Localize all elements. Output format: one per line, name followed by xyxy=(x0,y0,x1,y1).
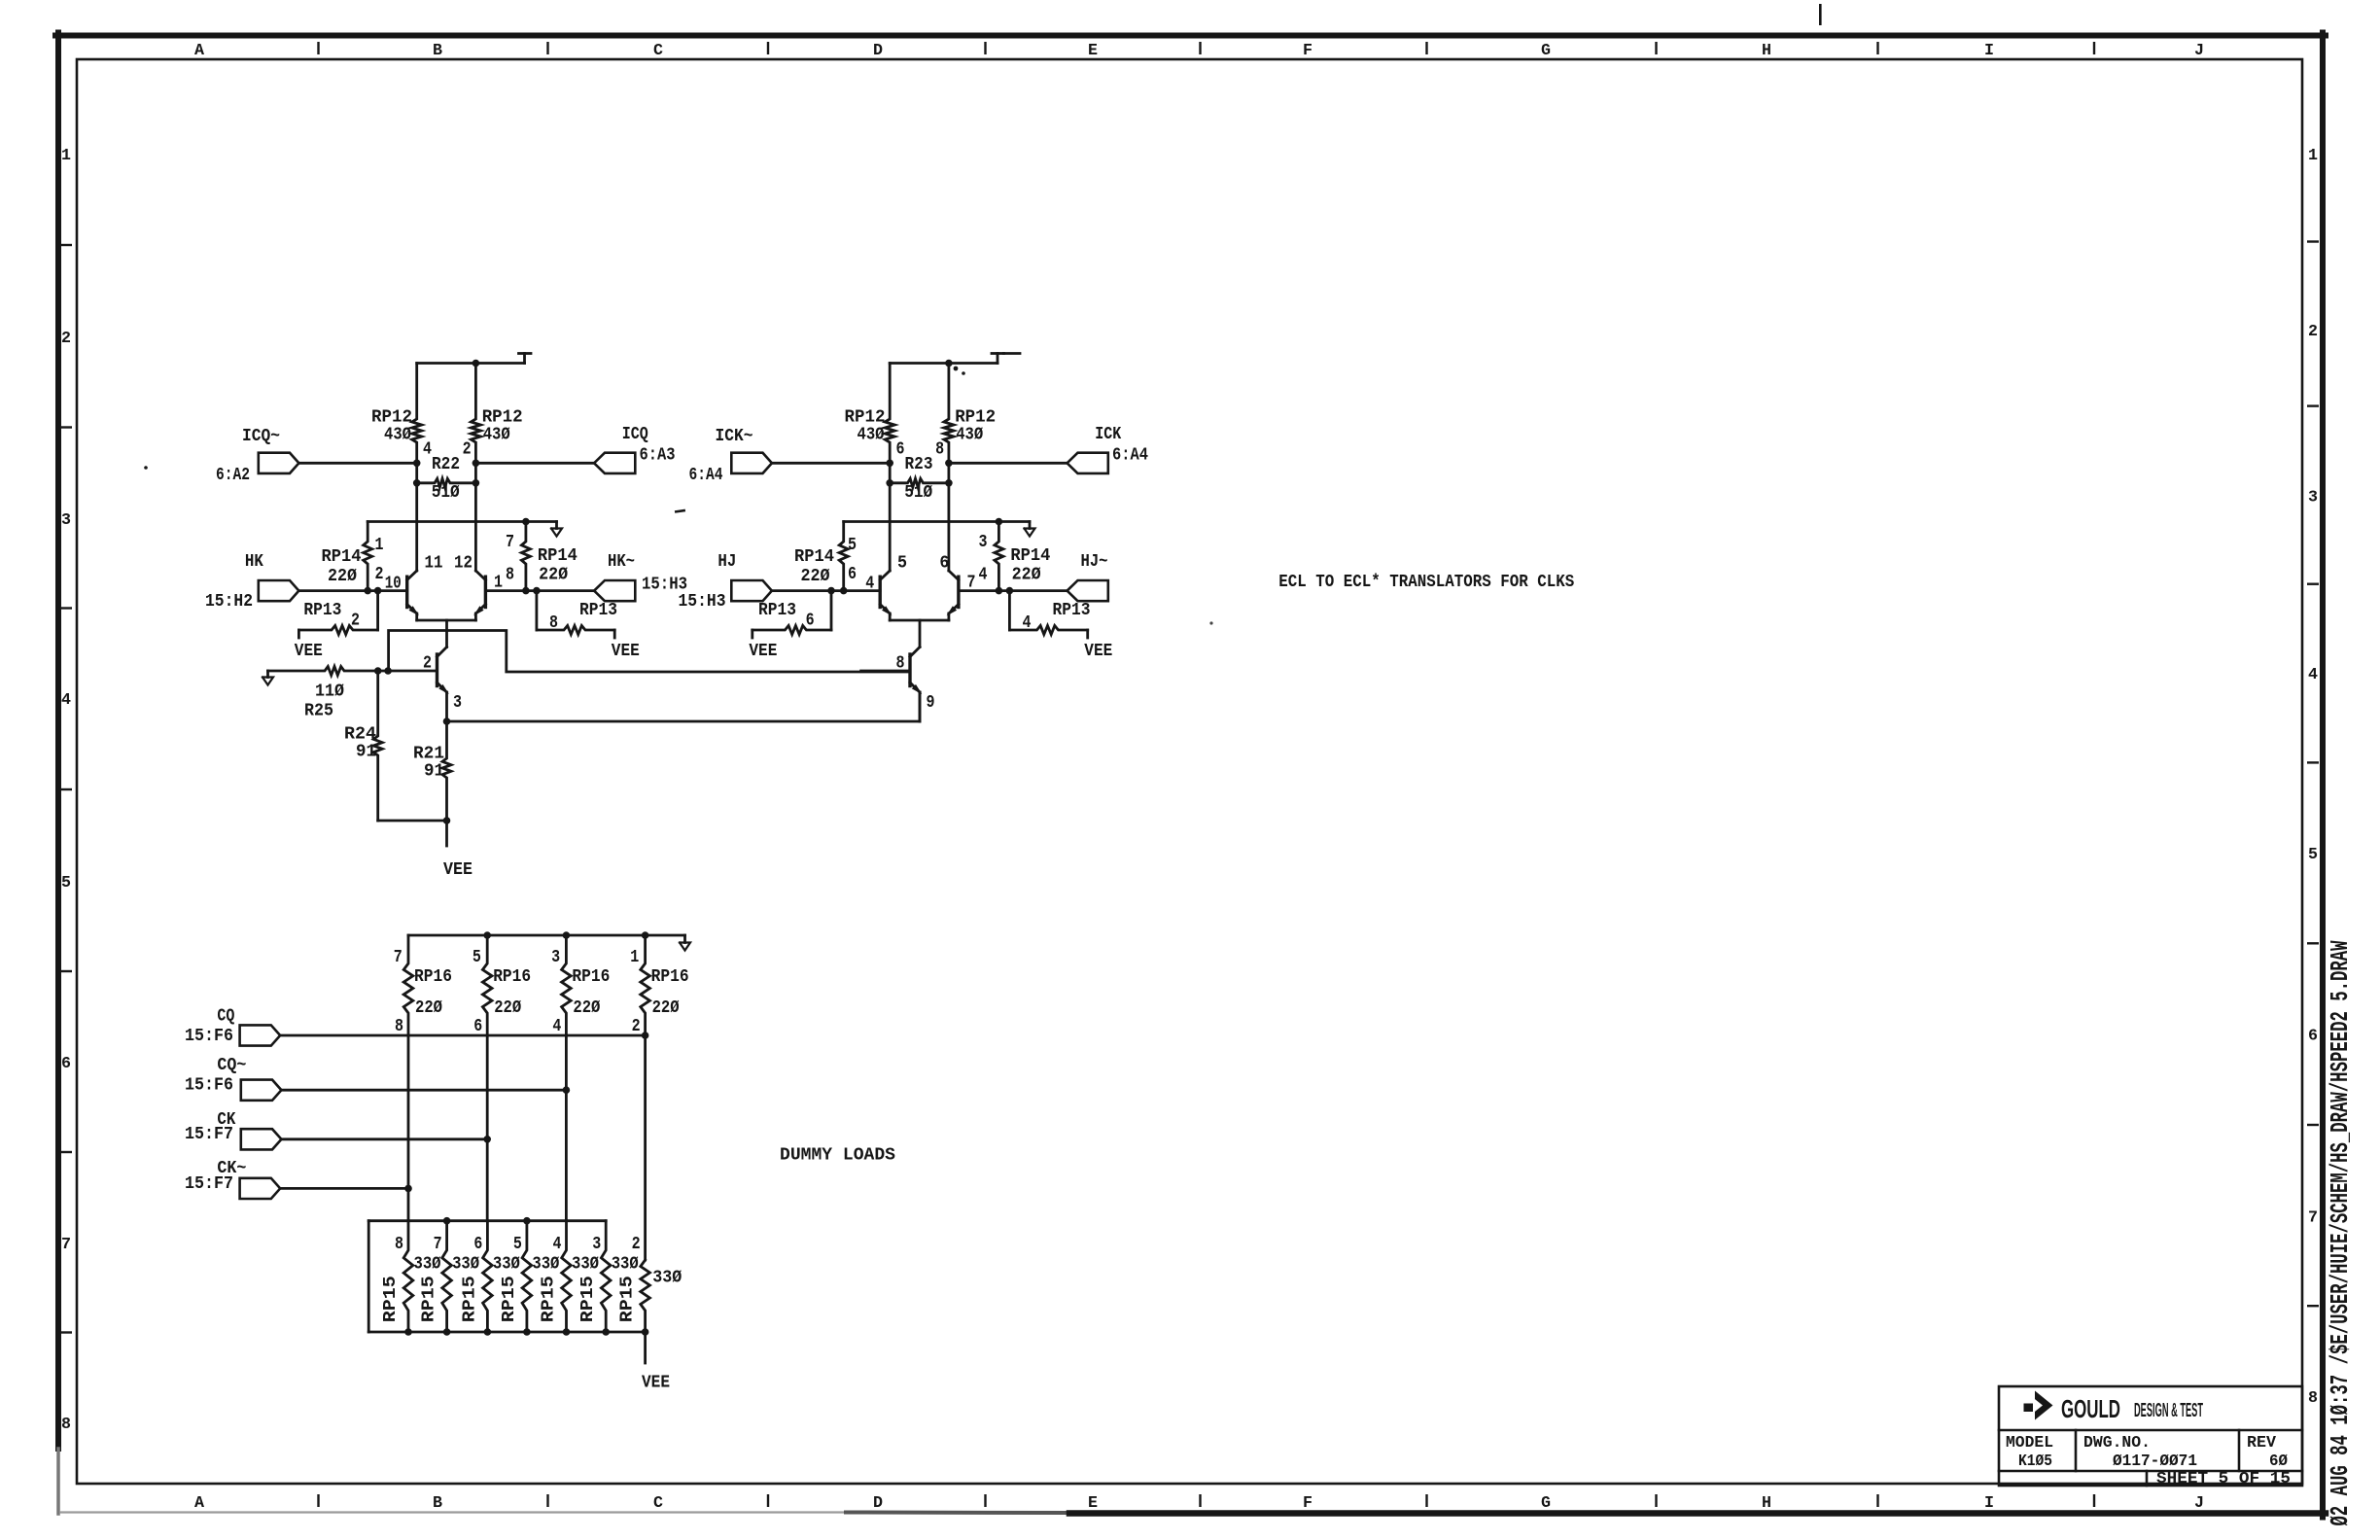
svg-text:HK~: HK~ xyxy=(608,552,635,572)
svg-text:8: 8 xyxy=(506,566,514,585)
svg-text:1: 1 xyxy=(630,948,639,967)
svg-text:2: 2 xyxy=(632,1017,641,1036)
svg-text:7: 7 xyxy=(394,948,402,967)
svg-text:2: 2 xyxy=(351,612,360,631)
svg-text:7: 7 xyxy=(967,574,976,593)
svg-text:2: 2 xyxy=(632,1235,641,1254)
svg-text:15:H3: 15:H3 xyxy=(679,592,726,612)
svg-text:5: 5 xyxy=(848,536,857,555)
svg-text:A: A xyxy=(194,1494,205,1513)
svg-text:J: J xyxy=(2194,1494,2204,1513)
svg-text:43Ø: 43Ø xyxy=(857,426,885,445)
svg-text:RP14: RP14 xyxy=(538,546,577,566)
svg-text:R21: R21 xyxy=(413,745,444,764)
svg-text:A: A xyxy=(194,42,205,60)
svg-text:33Ø: 33Ø xyxy=(493,1255,520,1275)
svg-text:4: 4 xyxy=(423,440,432,460)
svg-text:H: H xyxy=(1762,1494,1771,1513)
svg-text:ICQ~: ICQ~ xyxy=(242,427,280,446)
svg-text:7: 7 xyxy=(61,1236,71,1254)
svg-text:3: 3 xyxy=(551,948,560,967)
svg-text:R25: R25 xyxy=(304,702,333,721)
svg-text:22Ø: 22Ø xyxy=(494,998,521,1018)
svg-text:RP12: RP12 xyxy=(955,408,996,428)
svg-text:22Ø: 22Ø xyxy=(573,998,600,1018)
svg-text:15:F7: 15:F7 xyxy=(185,1125,233,1144)
svg-text:DUMMY LOADS: DUMMY LOADS xyxy=(780,1146,895,1166)
svg-text:5: 5 xyxy=(897,554,907,574)
svg-text:RP13: RP13 xyxy=(579,601,617,620)
svg-text:22Ø: 22Ø xyxy=(539,566,568,585)
svg-text:43Ø: 43Ø xyxy=(483,426,510,445)
svg-text:RP13: RP13 xyxy=(758,601,796,620)
svg-text:6: 6 xyxy=(473,1017,482,1036)
svg-text:RP16: RP16 xyxy=(651,967,689,987)
svg-text:8: 8 xyxy=(896,654,905,674)
svg-text:R23: R23 xyxy=(905,455,933,474)
svg-text:DESIGN & TEST: DESIGN & TEST xyxy=(2134,1400,2203,1421)
svg-text:6: 6 xyxy=(473,1235,482,1254)
svg-text:HK: HK xyxy=(245,552,263,572)
svg-text:RP15: RP15 xyxy=(460,1276,479,1322)
svg-text:VEE: VEE xyxy=(642,1374,670,1393)
svg-text:VEE: VEE xyxy=(1084,642,1112,661)
svg-text:4: 4 xyxy=(1023,613,1032,633)
svg-text:D: D xyxy=(873,42,883,60)
svg-text:2: 2 xyxy=(423,654,432,674)
svg-text:2: 2 xyxy=(61,330,71,348)
svg-text:CQ~: CQ~ xyxy=(217,1056,246,1075)
svg-text:RP13: RP13 xyxy=(1053,601,1091,620)
svg-text:DWG.NO.: DWG.NO. xyxy=(2083,1434,2151,1452)
svg-text:3: 3 xyxy=(979,533,988,552)
svg-text:51Ø: 51Ø xyxy=(904,483,932,503)
svg-text:5: 5 xyxy=(2308,846,2318,864)
svg-text:G: G xyxy=(1541,42,1551,60)
svg-text:F: F xyxy=(1303,42,1312,60)
svg-text:R24: R24 xyxy=(344,725,376,745)
svg-text:4: 4 xyxy=(61,691,71,710)
svg-text:15:F7: 15:F7 xyxy=(185,1174,233,1194)
svg-text:K1Ø5: K1Ø5 xyxy=(2018,1452,2052,1471)
svg-text:B: B xyxy=(433,42,442,60)
svg-text:RP15: RP15 xyxy=(540,1276,559,1322)
svg-text:22Ø: 22Ø xyxy=(652,998,680,1018)
svg-text:HJ: HJ xyxy=(717,552,736,572)
svg-text:4: 4 xyxy=(865,575,874,594)
svg-text:22Ø: 22Ø xyxy=(415,998,442,1018)
svg-text:GOULD: GOULD xyxy=(2061,1394,2120,1423)
svg-text:9: 9 xyxy=(927,693,935,713)
svg-text:8: 8 xyxy=(395,1235,403,1254)
svg-text:33Ø: 33Ø xyxy=(612,1255,639,1275)
svg-text:RP15: RP15 xyxy=(500,1276,519,1322)
svg-text:43Ø: 43Ø xyxy=(384,426,411,445)
svg-text:4: 4 xyxy=(553,1235,562,1254)
svg-text:5: 5 xyxy=(472,948,481,967)
svg-text:22Ø: 22Ø xyxy=(801,567,830,586)
svg-text:7: 7 xyxy=(434,1235,442,1254)
svg-text:4: 4 xyxy=(2308,666,2318,684)
svg-text:3: 3 xyxy=(61,511,71,530)
svg-text:ECL TO ECL* TRANSLATORS FOR CL: ECL TO ECL* TRANSLATORS FOR CLKS xyxy=(1278,573,1574,592)
svg-text:6:A4: 6:A4 xyxy=(689,466,723,485)
svg-text:1: 1 xyxy=(494,574,503,593)
svg-text:3: 3 xyxy=(592,1235,601,1254)
svg-text:RP15: RP15 xyxy=(578,1276,598,1322)
svg-text:J: J xyxy=(2194,42,2204,60)
svg-text:91: 91 xyxy=(356,743,376,762)
svg-text:6: 6 xyxy=(2308,1028,2318,1046)
svg-text:6: 6 xyxy=(806,612,815,631)
svg-text:1: 1 xyxy=(61,147,71,165)
svg-text:33Ø: 33Ø xyxy=(452,1255,479,1275)
svg-text:RP16: RP16 xyxy=(572,967,610,987)
svg-text:E: E xyxy=(1088,42,1098,60)
svg-text:7: 7 xyxy=(2308,1208,2318,1227)
svg-text:91: 91 xyxy=(424,762,444,782)
svg-text:15:F6: 15:F6 xyxy=(185,1027,233,1046)
svg-text:RP15: RP15 xyxy=(381,1276,401,1322)
svg-text:HJ~: HJ~ xyxy=(1081,552,1108,572)
svg-text:RP12: RP12 xyxy=(482,408,523,428)
svg-text:22Ø: 22Ø xyxy=(1012,566,1041,585)
svg-text:RP16: RP16 xyxy=(414,967,452,987)
svg-text:15:H2: 15:H2 xyxy=(205,592,253,612)
svg-text:8: 8 xyxy=(395,1017,403,1036)
svg-text:8: 8 xyxy=(549,613,558,633)
svg-text:Ø2 AUG 84 1Ø:37 /$E/USER/HUIE/: Ø2 AUG 84 1Ø:37 /$E/USER/HUIE/SCHEM/HS_D… xyxy=(2326,940,2355,1525)
svg-text:10: 10 xyxy=(385,575,402,594)
svg-text:6:A3: 6:A3 xyxy=(640,446,676,466)
svg-text:I: I xyxy=(1984,1494,1994,1513)
svg-text:E: E xyxy=(1088,1494,1098,1513)
svg-text:D: D xyxy=(873,1494,883,1513)
svg-text:RP12: RP12 xyxy=(371,408,412,428)
svg-text:3: 3 xyxy=(453,693,462,713)
svg-text:C: C xyxy=(653,1494,663,1513)
svg-text:H: H xyxy=(1762,42,1771,60)
svg-text:VEE: VEE xyxy=(295,642,323,661)
svg-text:6: 6 xyxy=(61,1055,71,1073)
svg-text:I: I xyxy=(1984,42,1994,60)
svg-text:7: 7 xyxy=(506,533,514,552)
svg-text:RP15: RP15 xyxy=(420,1276,439,1322)
svg-text:ICQ: ICQ xyxy=(622,425,648,444)
svg-text:ICK~: ICK~ xyxy=(716,427,753,446)
svg-text:RP16: RP16 xyxy=(493,967,531,987)
svg-text:33Ø: 33Ø xyxy=(652,1269,682,1288)
svg-text:4: 4 xyxy=(552,1017,561,1036)
svg-text:RP14: RP14 xyxy=(1010,546,1050,566)
svg-text:2: 2 xyxy=(463,440,472,460)
svg-text:G: G xyxy=(1541,1494,1551,1513)
svg-text:ICK: ICK xyxy=(1095,425,1121,444)
svg-text:33Ø: 33Ø xyxy=(532,1255,559,1275)
svg-text:15:F6: 15:F6 xyxy=(185,1076,233,1096)
svg-text:2: 2 xyxy=(2308,323,2318,341)
svg-text:3: 3 xyxy=(2308,489,2318,507)
svg-text:33Ø: 33Ø xyxy=(414,1255,441,1275)
svg-text:33Ø: 33Ø xyxy=(572,1255,599,1275)
svg-text:6: 6 xyxy=(896,440,905,460)
svg-text:REV: REV xyxy=(2247,1434,2277,1452)
svg-text:1: 1 xyxy=(2308,147,2318,165)
svg-text:R22: R22 xyxy=(432,455,460,474)
svg-text:22Ø: 22Ø xyxy=(328,567,357,586)
svg-text:51Ø: 51Ø xyxy=(432,483,460,503)
svg-text:43Ø: 43Ø xyxy=(956,426,983,445)
svg-text:VEE: VEE xyxy=(443,860,472,880)
svg-text:6:A2: 6:A2 xyxy=(216,466,250,485)
svg-text:4: 4 xyxy=(979,566,988,585)
svg-text:F: F xyxy=(1303,1494,1312,1513)
svg-text:8: 8 xyxy=(2308,1389,2318,1408)
svg-text:VEE: VEE xyxy=(612,642,640,661)
svg-text:RP14: RP14 xyxy=(322,547,362,567)
svg-text:RP14: RP14 xyxy=(794,547,834,567)
svg-text:1: 1 xyxy=(375,536,384,555)
svg-text:8: 8 xyxy=(935,440,944,460)
svg-text:MODEL: MODEL xyxy=(2006,1434,2053,1452)
svg-text:C: C xyxy=(653,42,663,60)
svg-text:12: 12 xyxy=(454,554,472,574)
svg-text:VEE: VEE xyxy=(749,642,777,661)
svg-text:RP15: RP15 xyxy=(618,1276,638,1322)
svg-text:8: 8 xyxy=(61,1416,71,1434)
svg-text:SHEET 5 OF 15: SHEET 5 OF 15 xyxy=(2156,1469,2291,1487)
svg-text:11Ø: 11Ø xyxy=(315,682,344,702)
svg-text:6: 6 xyxy=(848,565,857,584)
svg-text:11: 11 xyxy=(425,554,443,574)
svg-text:2: 2 xyxy=(375,565,384,584)
svg-text:5: 5 xyxy=(513,1235,522,1254)
svg-text:CQ: CQ xyxy=(217,1007,234,1027)
svg-text:B: B xyxy=(433,1494,442,1513)
svg-text:6:A4: 6:A4 xyxy=(1112,446,1148,466)
svg-text:5: 5 xyxy=(61,874,71,892)
svg-text:6: 6 xyxy=(939,554,949,574)
svg-text:RP13: RP13 xyxy=(303,601,341,620)
svg-text:RP12: RP12 xyxy=(845,408,886,428)
